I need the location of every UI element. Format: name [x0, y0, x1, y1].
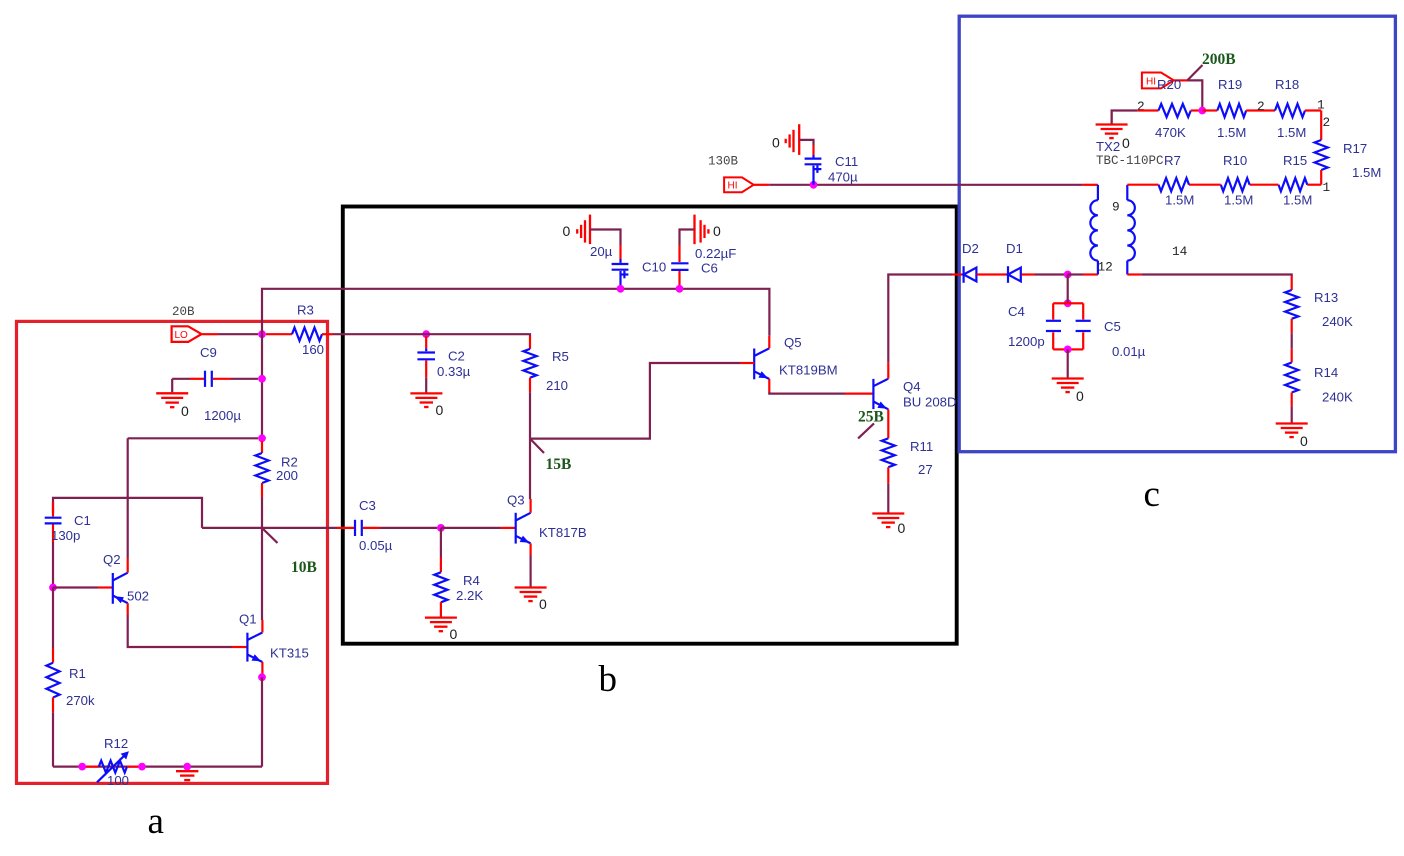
- wire 10B node down to Q1 collector: [261, 528, 263, 620]
- wire rail-b left riser: [262, 289, 621, 334]
- svg-text:10B: 10B: [291, 559, 317, 576]
- node rail dot 3: [183, 763, 191, 771]
- wire node to Q3 base: [441, 527, 515, 529]
- capacitor C10 (electrolytic 20u): [563, 215, 667, 289]
- diode D1: [1006, 241, 1064, 283]
- node C3/R4 junction: [437, 524, 445, 532]
- capacitor C6: [671, 215, 736, 289]
- resistor R1: [46, 588, 95, 767]
- resistor R13: [1285, 276, 1353, 333]
- svg-text:200: 200: [276, 468, 298, 483]
- resistor R7: [1127, 153, 1194, 208]
- wire Q2 collector up: [127, 438, 129, 558]
- node 25B annotation: [858, 409, 884, 439]
- wire vertical trunk x262: [261, 334, 263, 441]
- svg-text:240K: 240K: [1322, 314, 1353, 329]
- svg-text:0: 0: [713, 223, 721, 239]
- resistor R12 (variable): [84, 736, 140, 788]
- svg-text:R19: R19: [1218, 77, 1242, 92]
- wire TX2 secondary-right bottom to R13: [1127, 275, 1291, 277]
- svg-text:2.2K: 2.2K: [456, 588, 483, 603]
- port HI (200B): [1142, 73, 1174, 89]
- svg-text:0: 0: [450, 626, 458, 642]
- svg-text:Q4: Q4: [903, 379, 921, 394]
- wire R3 to C2 node: [333, 333, 422, 335]
- svg-text:C10: C10: [642, 260, 666, 275]
- svg-text:R4: R4: [463, 573, 480, 588]
- node rail dot 1: [78, 763, 86, 771]
- svg-text:Q5: Q5: [784, 335, 802, 350]
- wire 15B node to Q5 base: [530, 363, 740, 439]
- wire LO to node: [202, 333, 258, 335]
- svg-text:0.33µ: 0.33µ: [437, 364, 471, 379]
- svg-text:D1: D1: [1006, 241, 1023, 256]
- wire HI to R20 node: [1174, 65, 1203, 107]
- svg-text:9: 9: [1112, 200, 1120, 215]
- svg-text:0.22µF: 0.22µF: [695, 246, 736, 261]
- ground R4: [425, 618, 458, 642]
- svg-text:R18: R18: [1275, 77, 1299, 92]
- transistor Q3: [507, 493, 587, 556]
- svg-text:2: 2: [1323, 115, 1331, 130]
- capacitor C3: [337, 498, 437, 553]
- capacitor C2: [417, 336, 470, 393]
- wire Q2 base: [53, 586, 112, 588]
- svg-text:15B: 15B: [546, 456, 572, 473]
- svg-text:130p: 130p: [51, 528, 80, 543]
- wire node to TX2 secondary-left bottom: [1068, 273, 1098, 275]
- node D1/C4 junction: [1064, 271, 1072, 279]
- capacitor C9: [172, 345, 258, 423]
- svg-text:R11: R11: [910, 439, 933, 454]
- svg-text:0.05µ: 0.05µ: [359, 538, 393, 553]
- svg-text:c: c: [1144, 474, 1160, 515]
- resistor R3: [266, 303, 333, 358]
- node 10B annotation: [262, 528, 317, 576]
- ground bottom rail: [176, 771, 198, 780]
- svg-text:Q1: Q1: [239, 612, 257, 627]
- svg-text:R10: R10: [1223, 153, 1247, 168]
- svg-text:1.5M: 1.5M: [1283, 193, 1312, 208]
- svg-text:TBC-110PC: TBC-110PC: [1096, 154, 1164, 168]
- svg-text:R20: R20: [1157, 77, 1181, 92]
- svg-text:TX2: TX2: [1096, 139, 1120, 154]
- svg-text:C1: C1: [74, 513, 91, 528]
- svg-text:502: 502: [127, 589, 149, 604]
- svg-text:270k: 270k: [66, 693, 95, 708]
- svg-text:R3: R3: [297, 303, 314, 318]
- svg-text:R12: R12: [104, 736, 128, 751]
- svg-text:Q3: Q3: [507, 493, 525, 508]
- svg-text:0: 0: [1300, 433, 1308, 449]
- svg-text:470K: 470K: [1155, 125, 1186, 140]
- svg-text:1.5M: 1.5M: [1224, 193, 1253, 208]
- svg-text:C4: C4: [1008, 304, 1025, 319]
- svg-text:KT817B: KT817B: [539, 525, 587, 540]
- wire Q1 emitter down: [261, 677, 263, 766]
- svg-text:C11: C11: [835, 154, 858, 169]
- svg-text:BU 208D: BU 208D: [903, 395, 957, 410]
- svg-text:20B: 20B: [172, 305, 195, 319]
- wire C2 node to R5: [422, 334, 531, 336]
- resistor R4: [434, 528, 483, 617]
- wire HI to TX2 primary: [754, 184, 1098, 186]
- wire rail-b right: [621, 289, 770, 336]
- node C2 top junction: [422, 330, 430, 338]
- svg-text:1200p: 1200p: [1008, 334, 1045, 349]
- svg-text:130B: 130B: [708, 155, 739, 169]
- svg-text:R7: R7: [1164, 153, 1181, 168]
- node C11 junction: [810, 181, 818, 189]
- svg-text:0: 0: [181, 403, 189, 419]
- resistor R19: [1202, 77, 1275, 140]
- ground R14: [1276, 424, 1308, 450]
- svg-text:0: 0: [563, 223, 571, 239]
- svg-text:R15: R15: [1283, 153, 1307, 168]
- node LO junction: [258, 330, 266, 338]
- svg-text:0: 0: [539, 596, 547, 612]
- svg-text:b: b: [599, 659, 618, 700]
- capacitor C1: [45, 502, 91, 584]
- port HI (130B): [724, 177, 754, 192]
- node C4 top junction: [1064, 299, 1072, 307]
- resistor R2: [255, 441, 298, 498]
- svg-text:470µ: 470µ: [828, 170, 858, 185]
- resistor R10: [1189, 153, 1253, 208]
- node C9 junction: [258, 375, 266, 383]
- svg-text:D2: D2: [962, 241, 979, 256]
- resistor R11: [882, 421, 934, 513]
- svg-text:20µ: 20µ: [590, 244, 613, 259]
- wire Q5 emitter to Q4 base: [769, 392, 873, 394]
- svg-text:210: 210: [546, 378, 568, 393]
- svg-text:2: 2: [1257, 99, 1265, 114]
- wire bottom rail: [53, 765, 262, 767]
- svg-text:C5: C5: [1104, 319, 1121, 334]
- svg-text:0.01µ: 0.01µ: [1112, 344, 1146, 359]
- box a (red): [17, 321, 328, 783]
- wire Q2 emitter to Q1 base: [128, 615, 247, 647]
- svg-text:C6: C6: [701, 261, 718, 276]
- resistor R5: [523, 336, 568, 393]
- node rail dot 2: [138, 763, 146, 771]
- svg-text:14: 14: [1172, 244, 1188, 259]
- svg-text:R13: R13: [1314, 290, 1338, 305]
- ground TX2: [1096, 111, 1130, 152]
- box b (black): [343, 207, 957, 644]
- ground R11: [872, 514, 905, 537]
- svg-text:25B: 25B: [858, 409, 884, 426]
- svg-text:C3: C3: [359, 498, 376, 513]
- svg-text:1.5M: 1.5M: [1217, 125, 1246, 140]
- svg-text:2: 2: [1137, 99, 1145, 114]
- transistor Q4: [873, 362, 956, 421]
- wire row1 left + TX2 gnd stem: [1112, 111, 1138, 124]
- resistor R15: [1250, 153, 1322, 208]
- svg-text:R17: R17: [1343, 141, 1367, 156]
- node C4 bottom junction: [1064, 346, 1072, 354]
- svg-text:12: 12: [1098, 260, 1113, 275]
- resistor R20: [1137, 77, 1202, 140]
- transistor Q5: [740, 335, 838, 392]
- svg-text:160: 160: [302, 342, 324, 357]
- ground Q3: [515, 556, 547, 613]
- svg-text:240K: 240K: [1322, 390, 1353, 405]
- svg-text:R5: R5: [552, 349, 569, 364]
- svg-text:1: 1: [1317, 98, 1325, 113]
- node R2 top junction: [258, 434, 266, 442]
- svg-text:0: 0: [1122, 135, 1130, 151]
- svg-text:0: 0: [772, 135, 780, 151]
- transistor Q1: [239, 612, 309, 676]
- svg-text:R1: R1: [69, 666, 86, 681]
- wire collector rail Q2: [128, 437, 258, 439]
- ground C2: [410, 393, 443, 418]
- node Q1 emitter junction: [258, 673, 266, 681]
- port LO: [172, 326, 202, 342]
- svg-text:1200µ: 1200µ: [204, 408, 241, 423]
- capacitor C5: [1068, 303, 1146, 359]
- svg-text:0: 0: [436, 402, 444, 418]
- box c (blue): [959, 16, 1395, 452]
- resistor R14: [1285, 333, 1353, 422]
- capacitor C4: [1008, 303, 1068, 349]
- svg-text:HI: HI: [728, 181, 738, 192]
- svg-text:KT819BM: KT819BM: [779, 363, 838, 378]
- svg-text:0: 0: [1076, 388, 1084, 404]
- svg-text:C9: C9: [200, 345, 217, 360]
- transistor Q2: [103, 552, 149, 615]
- svg-text:KT315: KT315: [270, 646, 309, 661]
- svg-text:R14: R14: [1314, 365, 1338, 380]
- transformer TX2: [1090, 139, 1187, 275]
- wire Q4 collector to D2: [888, 275, 952, 363]
- svg-text:LO: LO: [175, 330, 189, 341]
- wire R5 bottom to 15B node: [529, 392, 531, 438]
- svg-text:1: 1: [1323, 180, 1331, 195]
- svg-text:100: 100: [107, 773, 129, 788]
- svg-text:1.5M: 1.5M: [1277, 125, 1306, 140]
- ground C4/C5: [1052, 349, 1084, 404]
- node C1/Q2/R1 junction: [49, 584, 57, 592]
- node rail C10: [617, 285, 625, 293]
- node rail C6: [676, 285, 684, 293]
- capacitor C11: [772, 124, 858, 185]
- diode D2: [952, 241, 1008, 283]
- svg-text:1.5M: 1.5M: [1352, 165, 1381, 180]
- svg-text:200B: 200B: [1202, 51, 1236, 68]
- wire R2 bottom to 10B node: [261, 498, 263, 528]
- wire 15B node to Q3 collector: [529, 439, 531, 499]
- svg-text:1.5M: 1.5M: [1165, 193, 1194, 208]
- svg-text:a: a: [148, 801, 164, 842]
- resistor R17: [1315, 111, 1382, 196]
- svg-text:27: 27: [918, 462, 933, 477]
- wire C1 top loop: [53, 498, 202, 528]
- node 15B annotation: [530, 439, 571, 473]
- wire 10B horizontal: [202, 527, 337, 529]
- svg-text:Q2: Q2: [103, 552, 121, 567]
- svg-text:C2: C2: [448, 349, 465, 364]
- resistor R18: [1275, 77, 1325, 140]
- svg-text:HI: HI: [1146, 77, 1156, 88]
- node R20/R19 junction: [1198, 107, 1206, 115]
- svg-text:0: 0: [898, 520, 906, 536]
- ground C9: [156, 379, 189, 419]
- wire D1 node down: [1067, 275, 1069, 304]
